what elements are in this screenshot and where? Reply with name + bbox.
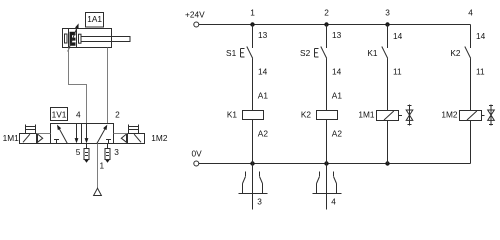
cylinder adjustability arrow — [68, 23, 79, 51]
svg-text:1M1: 1M1 — [3, 133, 20, 143]
cylinder right cushion seal — [79, 34, 82, 43]
svg-text:1: 1 — [99, 161, 104, 171]
svg-text:13: 13 — [258, 30, 268, 40]
branch 4 wire middle — [470, 58, 472, 110]
valve 1V1 body — [51, 124, 114, 144]
valve right box flow arrow 4 to 5 — [85, 124, 89, 144]
valve left box blocked port 5 — [54, 140, 59, 144]
branch 3 wire middle — [387, 58, 389, 110]
svg-text:14: 14 — [476, 31, 486, 41]
cylinder 1A1 body — [63, 29, 112, 48]
valve left box flow arrow 1 to 4 — [57, 125, 67, 144]
solenoid 1M1 — [20, 134, 37, 144]
branch 1 wire upper — [252, 25, 254, 49]
junction dot rail24 branch3 — [385, 22, 389, 26]
svg-text:A1: A1 — [258, 91, 269, 101]
svg-text:1M2: 1M2 — [151, 133, 168, 143]
svg-text:13: 13 — [332, 30, 342, 40]
silencer at port 3 — [105, 144, 110, 163]
branch 4 wire lower — [470, 121, 472, 164]
junction dot rail0 branch3 — [385, 161, 389, 165]
solenoid 1M2 pilot triangle — [121, 134, 126, 142]
pipe port 1 to source — [97, 144, 99, 189]
svg-text:3: 3 — [257, 196, 262, 206]
junction dot rail24 branch2 — [324, 22, 328, 26]
contact mirror K1 — [239, 164, 268, 210]
svg-text:K2: K2 — [301, 110, 312, 120]
svg-text:1M2: 1M2 — [441, 110, 458, 120]
svg-text:14: 14 — [332, 67, 342, 77]
svg-text:S2: S2 — [300, 48, 311, 58]
branch 2 wire upper — [326, 25, 328, 49]
valve left box flow arrow 2 to 3 — [75, 124, 79, 144]
contact mirror K2 — [313, 164, 342, 210]
pipe cylinder left port to valve port 4 — [69, 48, 87, 124]
svg-text:5: 5 — [76, 147, 81, 157]
branch 1 wire middle — [252, 58, 254, 110]
svg-text:K2: K2 — [450, 48, 461, 58]
svg-text:2: 2 — [324, 8, 329, 18]
solenoid 1M1 double winding symbol — [26, 125, 36, 134]
junction dot rail0 branch2 — [324, 161, 328, 165]
compressed air source — [94, 188, 102, 195]
svg-text:A1: A1 — [332, 91, 343, 101]
svg-text:A2: A2 — [332, 128, 343, 138]
cylinder piston rod — [81, 37, 130, 42]
svg-text:11: 11 — [393, 67, 402, 77]
relay contact K1 — [382, 47, 388, 59]
svg-text:11: 11 — [476, 67, 485, 77]
label box 1A1 — [86, 13, 104, 28]
+24V supply terminal — [194, 22, 199, 27]
svg-text:1M1: 1M1 — [358, 110, 375, 120]
cylinder left cushion seal — [65, 34, 68, 43]
svg-text:4: 4 — [331, 196, 336, 206]
branch 2 wire lower — [326, 120, 328, 164]
branch 3 wire upper — [387, 25, 389, 49]
valve right box flow arrow 1 to 2 — [97, 125, 107, 144]
pipe cylinder right port to valve port 2 — [107, 48, 109, 124]
solenoid 1M2 double winding symbol — [129, 125, 139, 134]
cylinder piston magnet — [70, 32, 76, 46]
junction dot rail24 branch1 — [250, 22, 254, 26]
svg-text:14: 14 — [393, 31, 403, 41]
pushbutton S1 actuator — [241, 49, 245, 58]
silencer at port 5 — [84, 144, 89, 163]
0V supply terminal — [194, 161, 199, 166]
+24V rail — [199, 24, 471, 26]
valve solenoid 1M2 electrical — [460, 111, 485, 121]
svg-text:4: 4 — [76, 109, 81, 119]
svg-text:K1: K1 — [227, 110, 238, 120]
svg-text:K1: K1 — [367, 48, 378, 58]
solenoid 1M2 link to valve — [114, 134, 128, 144]
cylinder piston — [69, 29, 77, 47]
pushbutton S2 contact arm — [321, 47, 327, 59]
valve right box blocked port 3 — [106, 140, 111, 144]
svg-text:1: 1 — [250, 8, 255, 18]
junction dot rail0 branch1 — [250, 161, 254, 165]
svg-text:4: 4 — [468, 8, 473, 18]
branch 2 wire middle — [326, 58, 328, 110]
valve link symbol branch3 — [406, 105, 413, 126]
svg-text:2: 2 — [115, 109, 120, 119]
relay coil K2 — [317, 111, 338, 120]
svg-text:3: 3 — [114, 147, 119, 157]
relay coil K1 — [243, 111, 264, 120]
svg-text:0V: 0V — [192, 149, 203, 159]
relay contact K2 — [465, 47, 471, 59]
branch 4 wire upper — [470, 25, 472, 49]
svg-text:+24V: +24V — [185, 9, 205, 19]
valve solenoid 1M1 electrical — [377, 111, 403, 121]
solenoid 1M1 link to valve — [37, 134, 51, 144]
pushbutton S2 actuator — [315, 49, 319, 58]
svg-text:3: 3 — [385, 8, 390, 18]
solenoid 1M2 — [128, 134, 145, 144]
pushbutton S1 contact arm — [247, 47, 253, 59]
0V rail — [199, 163, 471, 165]
branch 1 wire lower — [252, 120, 254, 164]
label box 1V1 — [51, 108, 68, 121]
svg-text:A2: A2 — [258, 128, 269, 138]
solenoid 1M1 pilot triangle — [38, 134, 43, 142]
valve link symbol branch4 — [488, 105, 495, 126]
svg-text:S1: S1 — [226, 48, 237, 58]
branch 3 wire lower — [387, 121, 389, 164]
svg-text:1V1: 1V1 — [52, 109, 67, 119]
svg-text:14: 14 — [258, 67, 268, 77]
svg-text:1A1: 1A1 — [87, 14, 102, 24]
